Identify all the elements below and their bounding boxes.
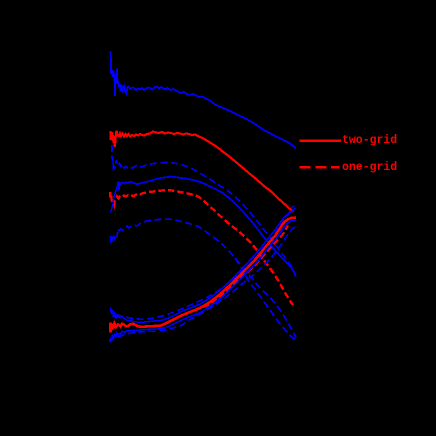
legend solid red line (two-grid) — [300, 140, 341, 142]
curve B red solid mean (two-grid), plateau then steep descent — [110, 131, 293, 212]
curve C blue dashed upper bound (one-grid) — [111, 145, 295, 277]
curve A blue solid upper bound (two-grid), noisy start then descending — [111, 52, 296, 149]
curve E red dashed mean (one-grid), chunky dashes — [110, 190, 293, 305]
curve F2 second blue dashed steep line near F — [235, 258, 296, 340]
legend dashed red line (one-grid) — [300, 166, 340, 168]
curve F blue dashed lower bound (one-grid) — [111, 219, 297, 338]
ascending red dashed mean (one-grid) — [150, 226, 288, 327]
ascending upper blue solid bound (two-grid) — [110, 208, 295, 322]
ascending lower blue solid bound (two-grid) — [110, 221, 296, 343]
legend label one-grid — [342, 161, 397, 174]
ascending lower blue dashed bound (one-grid) — [118, 227, 295, 337]
blue start fragment between curves E and F — [111, 184, 118, 213]
ascending red solid mean (two-grid), thick — [111, 218, 297, 333]
ascending upper blue dashed bound (one-grid) — [116, 206, 294, 320]
legend label two-grid — [342, 134, 397, 147]
curve D blue solid lower bound (two-grid) — [118, 177, 294, 272]
